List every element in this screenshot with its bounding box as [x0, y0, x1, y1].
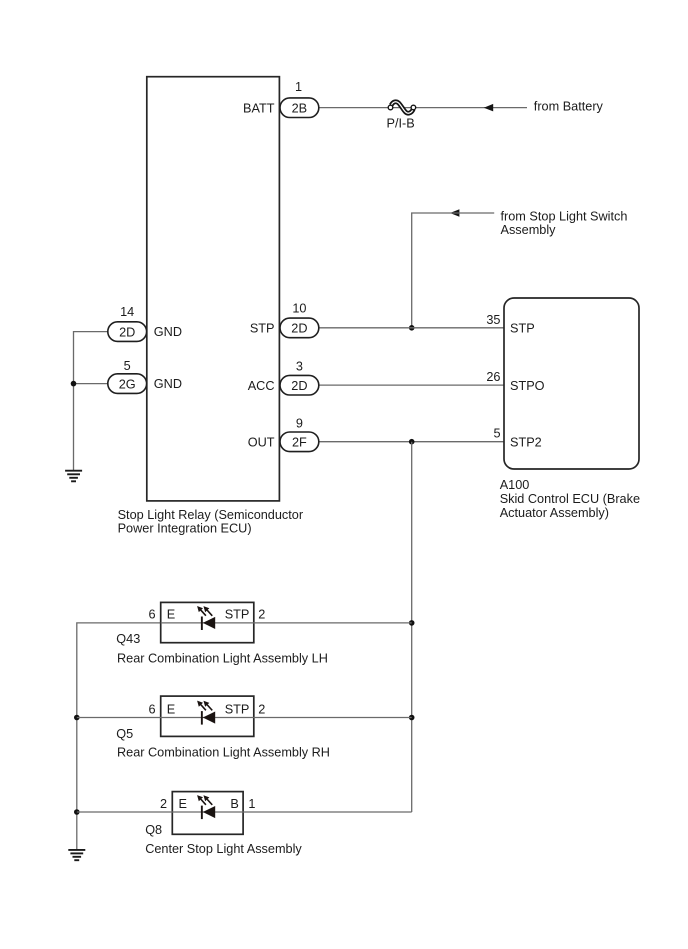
GND pin label 1	[154, 325, 182, 339]
Q5 pin 6 label	[148, 702, 155, 716]
LED lamp symbol Q43	[197, 606, 215, 630]
label: from Battery	[534, 100, 604, 114]
wire: Q8 lamp feed	[77, 811, 412, 813]
svg-text:STP: STP	[510, 322, 535, 336]
A100 STP pin label	[510, 322, 535, 336]
connector symbol P/I-B wave	[388, 102, 416, 113]
svg-text:2: 2	[160, 797, 167, 811]
svg-text:Q8: Q8	[145, 823, 162, 837]
arrow: from Battery direction	[484, 104, 493, 112]
svg-text:1: 1	[295, 80, 302, 94]
svg-text:STP2: STP2	[510, 435, 542, 449]
svg-text:2D: 2D	[119, 325, 135, 339]
svg-text:STPO: STPO	[510, 379, 545, 393]
label: Center Stop Light Assembly	[145, 842, 302, 856]
svg-text:2D: 2D	[291, 322, 307, 336]
junction: STP node	[409, 325, 415, 331]
wire: Q43 lamp feed	[161, 622, 412, 624]
pin 9 number (OUT)	[296, 416, 303, 430]
Q8 Center Stop Light Assembly box	[172, 792, 243, 835]
svg-text:10: 10	[292, 301, 306, 315]
pin GND terminal oval 2G	[108, 374, 147, 394]
svg-text:Actuator Assembly): Actuator Assembly)	[500, 506, 609, 520]
svg-text:35: 35	[486, 313, 500, 327]
Q5 pin 2 label	[258, 702, 265, 716]
svg-text:6: 6	[148, 702, 155, 716]
svg-text:14: 14	[120, 305, 134, 319]
svg-text:Rear Combination Light Assembl: Rear Combination Light Assembly RH	[117, 746, 330, 760]
svg-text:9: 9	[296, 416, 303, 430]
Q8 B pin label	[230, 797, 238, 811]
svg-text:Assembly: Assembly	[501, 223, 557, 237]
junction: GND node	[71, 381, 77, 387]
Q8 E pin label	[179, 797, 187, 811]
svg-text:6: 6	[148, 608, 155, 622]
svg-text:1: 1	[248, 797, 255, 811]
svg-text:5: 5	[124, 359, 131, 373]
BATT pin label	[243, 101, 275, 115]
wire: STP to A100 pin 35	[319, 327, 504, 329]
OUT pin label	[248, 435, 275, 449]
svg-text:STP: STP	[250, 322, 275, 336]
pin 10 number (STP)	[292, 301, 306, 315]
Q43 pin 6 label	[148, 608, 155, 622]
svg-text:OUT: OUT	[248, 435, 275, 449]
pin OUT terminal oval 2F	[280, 432, 319, 452]
STP pin label	[250, 322, 275, 336]
svg-text:B: B	[230, 797, 238, 811]
Q43 E pin label	[167, 608, 175, 622]
ground symbol G1	[65, 471, 82, 482]
svg-text:ACC: ACC	[248, 379, 275, 393]
label: Rear Combination Light Assembly LH	[117, 651, 328, 665]
junction: Q5 right node	[409, 715, 415, 721]
svg-text:Skid Control ECU (Brake: Skid Control ECU (Brake	[500, 492, 640, 506]
label: Q43	[116, 632, 140, 646]
wire: left lamp bus to ground	[77, 623, 161, 850]
svg-text:STP: STP	[225, 608, 250, 622]
svg-text:from Battery: from Battery	[534, 100, 604, 114]
Q8 pin 1 label	[248, 797, 255, 811]
LED lamp symbol Q8	[197, 795, 215, 819]
svg-text:2: 2	[258, 608, 265, 622]
svg-text:26: 26	[486, 370, 500, 384]
svg-text:GND: GND	[154, 377, 182, 391]
svg-text:3: 3	[296, 360, 303, 374]
wire: ACC to A100 pin 26	[319, 384, 504, 386]
wire: GND 2D to bus	[74, 332, 108, 470]
junction: Q8 left node	[74, 809, 80, 815]
label: Q8	[145, 823, 162, 837]
label P/I-B	[387, 117, 415, 131]
A100 pin 35 number	[486, 313, 500, 327]
wire: OUT to A100 pin 5	[319, 441, 504, 443]
pin ACC terminal oval 2D	[280, 375, 319, 395]
svg-text:2B: 2B	[292, 102, 308, 116]
label: Q5	[116, 727, 133, 741]
ACC pin label	[248, 379, 275, 393]
A100 STPO pin label	[510, 379, 545, 393]
svg-text:2D: 2D	[291, 379, 307, 393]
ground symbol G2	[68, 850, 85, 860]
svg-text:A100: A100	[500, 478, 530, 492]
label: A100 caption	[500, 478, 640, 520]
pin STP terminal oval 2D	[280, 318, 319, 338]
junction: OUT node	[409, 439, 415, 445]
junction: Q5 left node	[74, 715, 80, 721]
Q5 STP pin label	[225, 702, 250, 716]
LED lamp symbol Q5	[197, 701, 215, 725]
Q8 pin 2 label	[160, 797, 167, 811]
Stop Light Relay box	[147, 77, 280, 501]
Q5 Rear Combination Light Assembly RH box	[161, 696, 254, 736]
wire: OUT vertical bus	[411, 442, 413, 812]
svg-text:2G: 2G	[119, 377, 136, 391]
svg-text:2: 2	[258, 702, 265, 716]
svg-text:STP: STP	[225, 702, 250, 716]
svg-text:BATT: BATT	[243, 101, 275, 115]
svg-text:5: 5	[493, 427, 500, 441]
wire: GND 2G to bus	[74, 383, 108, 385]
label: from Stop Light Switch Assembly	[501, 209, 628, 237]
pin 1 number (BATT)	[295, 80, 302, 94]
svg-text:Center Stop Light Assembly: Center Stop Light Assembly	[145, 842, 302, 856]
Q43 STP pin label	[225, 608, 250, 622]
pin BATT terminal oval 2B	[280, 98, 319, 118]
pin GND terminal oval 2D	[108, 322, 147, 342]
Q43 Rear Combination Light Assembly LH box	[161, 602, 254, 642]
Q43 pin 2 label	[258, 608, 265, 622]
junction: Q43 right node	[409, 620, 415, 626]
svg-text:Stop Light Relay (Semiconducto: Stop Light Relay (Semiconductor	[118, 508, 304, 522]
pin 5 number (GND)	[124, 359, 131, 373]
svg-text:E: E	[179, 797, 187, 811]
arrow: from Stop Light Switch direction	[450, 209, 459, 217]
label: Stop Light Relay caption	[118, 508, 304, 536]
svg-text:E: E	[167, 702, 175, 716]
svg-text:Rear Combination Light Assembl: Rear Combination Light Assembly LH	[117, 651, 328, 665]
pin 3 number (ACC)	[296, 360, 303, 374]
svg-text:Q5: Q5	[116, 727, 133, 741]
Q5 E pin label	[167, 702, 175, 716]
svg-text:2F: 2F	[292, 436, 307, 450]
GND pin label 2	[154, 377, 182, 391]
pin 14 number (GND)	[120, 305, 134, 319]
label: Rear Combination Light Assembly RH	[117, 746, 330, 760]
wire: Q5 lamp feed	[77, 717, 412, 719]
A100 Skid Control ECU box	[504, 298, 639, 469]
wire: stop light switch feed	[412, 213, 495, 328]
A100 STP2 pin label	[510, 435, 542, 449]
svg-text:from Stop Light Switch: from Stop Light Switch	[501, 209, 628, 223]
A100 pin 26 number	[486, 370, 500, 384]
svg-text:E: E	[167, 608, 175, 622]
svg-text:P/I-B: P/I-B	[387, 117, 415, 131]
svg-text:Power Integration ECU): Power Integration ECU)	[118, 522, 252, 536]
A100 pin 5 number	[493, 427, 500, 441]
svg-text:Q43: Q43	[116, 632, 140, 646]
wire: BATT to from-Battery	[319, 107, 527, 109]
svg-text:GND: GND	[154, 325, 182, 339]
